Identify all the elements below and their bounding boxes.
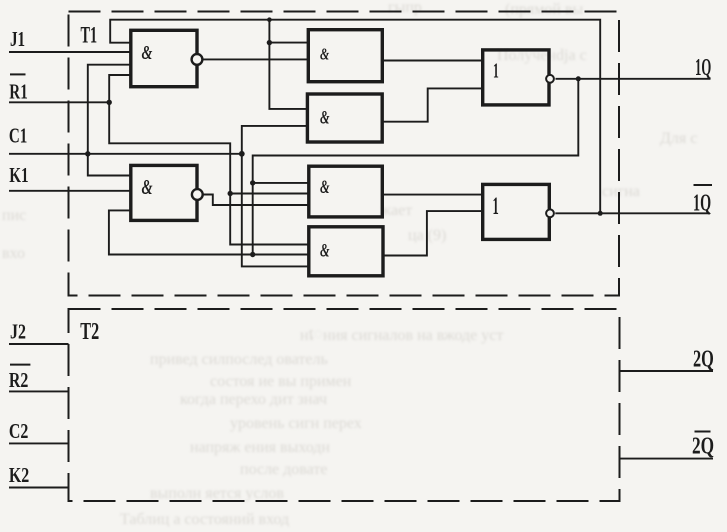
svg-text:J2: J2 [10,321,26,345]
inversion bubble of D1.2 [192,189,203,200]
wire C1 input [9,153,244,155]
junction C1 end [239,151,245,157]
wire clock branch to gates D1.1 and D1.2 [88,65,131,176]
svg-text:Таблиц а состояний вход: Таблиц а состояний вход [120,511,289,528]
svg-text:(прямой вы: (прямой вы [505,1,583,18]
junction on 1Q-bar output [598,211,603,216]
svg-text:&: & [142,42,153,64]
svg-text:&: & [142,175,153,198]
svg-text:&: & [320,178,330,198]
wire 2Q-bar output [620,458,713,460]
svg-text:K2: K2 [9,464,29,488]
NOR gate 1 body [483,50,549,105]
junction Qbar feedback top [267,17,272,22]
svg-text:1: 1 [493,193,499,221]
junction Qbar feedback to gate A [267,40,272,45]
NAND gate D1.2 body [131,165,197,220]
wire 1Q output [556,78,711,80]
wire NAND D1.1 output to gate A [203,58,308,60]
svg-text:&: & [320,241,330,261]
AND gate A body [308,30,382,82]
svg-text:вхо: вхо [2,245,25,262]
wire 1Q-bar output [555,212,710,214]
svg-text:K1: K1 [9,164,28,187]
junction Q feedback gate D [250,252,255,257]
flip-flop T2 dashed outline [69,309,620,501]
wire gate A output to NOR1 [382,60,482,62]
svg-text:выполн яется услов: выполн яется услов [150,485,284,502]
NAND gate D1.1 body [131,30,197,86]
flip-flop T1 dashed outline [69,12,620,296]
wire feedback from NOR2 output to D1.1 input [110,20,600,214]
wire D1.2 third input to gate D [109,210,309,254]
wire Q feedback down to gate C and gate D [253,79,579,255]
wire Qbar feedback to gates A and B [269,20,307,109]
svg-text:пис: пис [2,207,26,224]
wire NAND D1.2 output to gate C [203,195,309,206]
junction clock/C1 [85,151,90,156]
svg-text:1Q: 1Q [693,190,711,217]
svg-text:2Q: 2Q [693,347,714,373]
svg-text:Для с: Для с [660,130,697,147]
wire R2 input [9,390,69,392]
junction R1 branch gate C [228,191,233,196]
svg-text:R1: R1 [9,80,27,103]
wire gate B output to NOR1 [382,88,483,121]
AND gate D body [309,227,383,276]
wire K1 input [9,190,131,192]
svg-text:C2: C2 [9,420,29,444]
wire J2 input [9,343,69,345]
junction Q feedback gate C [250,180,255,185]
inversion bubble of NOR2 [546,209,554,217]
inversion bubble of D1.1 [192,54,203,65]
svg-text:после довате: после довате [240,461,327,478]
svg-text:привед силпослед ователь: привед силпослед ователь [150,351,328,368]
wire J1 input [9,51,131,53]
wire gate C output to NOR2 [382,194,482,196]
svg-text:когда перехо дит знач: когда перехо дит знач [180,391,327,408]
junction on 1Q output [576,76,581,81]
svg-text:1Q: 1Q [695,55,711,81]
svg-text:уровень сигн перех: уровень сигн перех [230,415,362,432]
svg-text:&: & [320,45,330,64]
wire gate D output to NOR2 [383,211,483,255]
wire branch to gate A input [269,42,308,44]
svg-text:состоя ие вы примен: состоя ие вы примен [210,373,352,390]
svg-text:J1: J1 [10,28,25,51]
wire R1 branch to D1.1, gate C, gate D [109,75,309,245]
inversion bubble of NOR1 [546,75,554,83]
svg-text:T1: T1 [81,23,98,48]
svg-text:нេния сигналов на вжоде уст: нេния сигналов на вжоде уст [300,327,503,344]
svg-text:C1: C1 [9,124,27,147]
svg-text:гыпр: гыпр [388,0,422,16]
wire K2 input [9,487,69,489]
wire R1 input [9,101,109,103]
wire Q feedback branch to gate C input [253,182,309,184]
wire 2Q output [620,370,713,372]
svg-text:1: 1 [493,59,499,83]
svg-text:сигна: сигна [602,183,640,200]
svg-text:&: & [320,108,330,128]
NOR gate 2 body [483,184,550,239]
AND gate B body [307,94,382,142]
svg-text:2Q: 2Q [692,432,714,460]
wire C2 input [9,442,69,444]
svg-text:T2: T2 [80,319,99,345]
wire clock branch to gate B and gate D [242,126,309,267]
junction on R1 line [107,100,112,105]
svg-text:R2: R2 [9,369,29,393]
AND gate C body [309,166,383,217]
svg-text:напряж ения выходн: напряж ения выходн [190,439,330,456]
wire R1 branch to gate C input [230,193,309,195]
